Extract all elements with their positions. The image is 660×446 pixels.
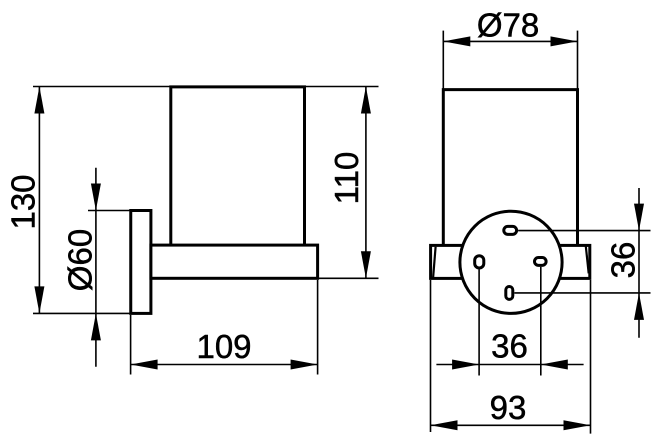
extension line d78 right — [577, 31, 579, 89]
arrow 109 right — [291, 360, 318, 370]
arrow 130 top — [34, 87, 44, 114]
arrow 36b left (points right, tip at left ext) — [452, 360, 479, 370]
svg-text:109: 109 — [196, 328, 251, 365]
svg-text:36: 36 — [605, 242, 642, 279]
extension line from left slot down (36 bottom dim) — [478, 270, 480, 376]
arrow 36r bottom (points up) — [634, 293, 644, 320]
mounting slot bottom — [506, 287, 513, 300]
extension line d78 left — [442, 31, 444, 89]
dimension line 93 — [431, 424, 591, 426]
arrow 110 bottom — [361, 251, 371, 278]
dimension line 130 — [38, 87, 40, 314]
wall plate (side view) — [131, 211, 151, 314]
mounting slot right — [535, 258, 547, 266]
extension line bottom of plate (for 130 dim) — [33, 312, 131, 314]
wall plate circle (front view) — [460, 211, 562, 313]
extension line 93 left — [430, 280, 432, 432]
dimension line 36 bottom — [436, 364, 583, 366]
arrow 36b right (points left, tip at right ext) — [541, 360, 568, 370]
holder collar (front view) — [431, 245, 590, 278]
holder arm (side view) — [151, 245, 318, 278]
dimension line d78 — [443, 40, 577, 42]
svg-text:110: 110 — [328, 152, 365, 205]
svg-text:130: 130 — [5, 174, 42, 229]
extension line from right slot down (36 bottom dim) — [540, 267, 542, 376]
dimension line 110 — [365, 87, 367, 279]
arrow 109 left — [131, 360, 158, 370]
collar edge line left — [433, 247, 436, 278]
arrow 93 right — [564, 420, 591, 430]
arrow 130 bottom — [34, 286, 44, 313]
extension line top (y=86.5, shared by 130 and 110 dims) — [33, 86, 379, 88]
mounting slot top — [504, 226, 517, 234]
svg-text:93: 93 — [490, 389, 527, 426]
collar edge line right — [586, 245, 589, 273]
arrow 93 left — [431, 420, 458, 430]
svg-text:Ø60: Ø60 — [62, 229, 99, 291]
extension line 93 right — [590, 280, 592, 434]
dimension line 36 right — [638, 188, 640, 338]
dimension line 109 — [131, 364, 318, 366]
arrow 110 top — [361, 87, 371, 114]
arrow d60 bottom (points up, tip at plate bottom) — [91, 313, 101, 340]
tumbler cup (front view) — [443, 90, 577, 246]
mounting slot left — [475, 256, 484, 268]
extension line 109 right (arm edge) — [317, 280, 319, 375]
extension line top of plate (for diameter 60 dim) — [88, 210, 131, 212]
extension line from top slot (36 vertical dim) — [518, 230, 650, 232]
extension line from bottom slot (36 vertical dim) — [514, 292, 650, 294]
extension line 109 left (wall face) — [130, 315, 132, 375]
arrow 36r top (points down) — [634, 204, 644, 231]
arrow d78 left — [443, 36, 470, 46]
arrow d60 top (points down, tip at plate top) — [91, 184, 101, 211]
tumbler cup (side view) — [171, 87, 305, 245]
arrow d78 right — [551, 36, 578, 46]
dimension line diameter 60 — [95, 168, 97, 367]
extension line bottom of arm (for 110 dim) — [318, 277, 379, 279]
svg-text:36: 36 — [491, 327, 528, 364]
svg-text:Ø78: Ø78 — [477, 7, 539, 44]
